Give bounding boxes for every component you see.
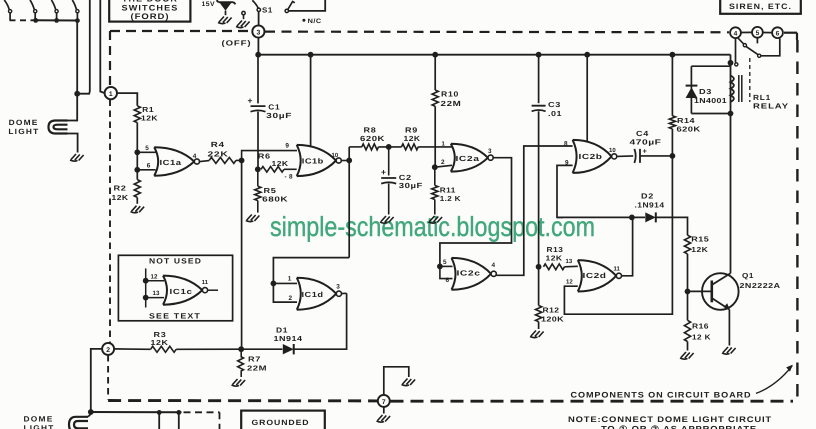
resistor R1 xyxy=(134,106,140,123)
label pin 6 IC1a xyxy=(147,163,151,170)
wire R4 junction to pin9 xyxy=(242,151,297,161)
wire IC2c pin5 stub xyxy=(440,265,453,267)
svg-text:2N2222A: 2N2222A xyxy=(740,281,781,290)
svg-text:2: 2 xyxy=(289,295,293,302)
svg-text:GROUNDED: GROUNDED xyxy=(252,418,310,427)
svg-text:12K: 12K xyxy=(272,159,289,168)
label D3 xyxy=(699,87,712,96)
junction dot door bus A xyxy=(33,18,38,23)
wire R9 to riser xyxy=(418,146,435,148)
switch S1 terminal xyxy=(257,8,260,11)
svg-text:R10: R10 xyxy=(441,90,459,99)
svg-text:12K: 12K xyxy=(404,134,421,143)
junction dot bottom rail xyxy=(88,409,94,415)
svg-text:12K: 12K xyxy=(141,113,158,122)
board border bottom-right segment xyxy=(391,400,794,403)
svg-text:C3: C3 xyxy=(548,100,561,109)
wire node7 hook xyxy=(384,367,409,395)
svg-text:+: + xyxy=(248,96,253,106)
svg-text:R2: R2 xyxy=(114,183,127,192)
label R10 xyxy=(441,90,459,99)
svg-text:5: 5 xyxy=(443,259,447,266)
label pin 5 IC2c xyxy=(443,259,447,266)
svg-text:8: 8 xyxy=(564,140,568,147)
wire R14 to C4 node xyxy=(671,129,673,156)
zener diode 15V xyxy=(217,0,236,15)
junction dot Q1 base xyxy=(685,289,691,295)
svg-text:R7: R7 xyxy=(248,355,261,364)
wire R1 to pin5 xyxy=(136,123,138,153)
wire IC1d pin feed xyxy=(273,258,349,303)
transistor Q1 base bar xyxy=(710,281,713,303)
junction dot R13/R12/C3 xyxy=(536,264,542,270)
label IC2c xyxy=(457,268,481,277)
label R6 value xyxy=(272,159,289,168)
svg-text:7: 7 xyxy=(382,399,386,406)
diode D2 1N914 xyxy=(645,212,656,222)
label S1 xyxy=(262,6,273,15)
svg-text:IC2b: IC2b xyxy=(579,152,603,161)
resistor R12 xyxy=(536,267,542,329)
svg-text:IC1a: IC1a xyxy=(160,158,183,167)
capacitor C3 xyxy=(532,106,546,112)
board border left edge upper xyxy=(109,31,111,87)
svg-text:R16: R16 xyxy=(692,321,709,330)
aux switch terminal xyxy=(285,9,288,12)
wire rail to C1 xyxy=(257,55,259,104)
wire R6 to IC1b pin8 xyxy=(284,168,297,170)
junction dot IC1c pin12 xyxy=(143,278,149,284)
junction dot relay top xyxy=(728,60,734,66)
wire pin5 stub xyxy=(137,151,155,153)
label C3 xyxy=(548,100,561,109)
svg-text:S1: S1 xyxy=(262,6,273,15)
ground below R7 xyxy=(232,379,246,386)
junction dot R7 xyxy=(238,346,244,352)
junction dot R8/C2 xyxy=(386,144,392,150)
resistor R4 xyxy=(209,157,236,163)
label IC1d xyxy=(302,290,324,299)
node 5 circle xyxy=(752,27,763,38)
label R3 xyxy=(154,330,167,339)
node 2 circle xyxy=(102,343,114,355)
label R13 value xyxy=(546,253,563,262)
wire door bus down to dome light xyxy=(76,21,78,122)
node 1 circle xyxy=(105,87,117,99)
box THE DOOR SWITCHES (FORD) xyxy=(109,0,190,22)
svg-text:4: 4 xyxy=(492,262,496,269)
label C4 value xyxy=(630,138,662,147)
box NOT USED xyxy=(118,255,232,320)
svg-text:D2: D2 xyxy=(641,192,654,201)
board border right edge xyxy=(796,40,798,399)
label pin 2 IC1d xyxy=(289,295,293,302)
ground below zener xyxy=(218,17,232,24)
wire rail to C3 xyxy=(538,55,540,103)
svg-text:12 K: 12 K xyxy=(692,332,711,341)
wire R4 to junction xyxy=(236,159,242,161)
label IC2a xyxy=(456,154,481,163)
svg-text:1.2 K: 1.2 K xyxy=(440,194,462,203)
svg-text:12K: 12K xyxy=(112,193,129,202)
svg-text:+: + xyxy=(381,167,386,177)
svg-text:1: 1 xyxy=(109,91,113,98)
junction dot switch stub A xyxy=(157,410,162,415)
label R12 xyxy=(543,306,560,315)
svg-text:.01: .01 xyxy=(548,109,562,118)
svg-text:R12: R12 xyxy=(543,306,560,315)
svg-text:5: 5 xyxy=(145,145,149,152)
label C4 xyxy=(636,129,649,138)
wire node2 to R3 xyxy=(114,348,151,350)
svg-text:SEE TEXT: SEE TEXT xyxy=(149,312,201,321)
resistor R6 xyxy=(261,167,284,173)
label 15V xyxy=(202,1,216,8)
label pin 1 IC2a xyxy=(442,140,446,147)
svg-text:R4: R4 xyxy=(211,140,225,149)
label R5 xyxy=(264,186,277,195)
ground below node7 xyxy=(377,415,391,422)
junction dot dome light branch xyxy=(74,91,80,97)
node 7 circle xyxy=(378,395,390,407)
label COMPONENTS ON CIRCUIT BOARD xyxy=(571,390,752,399)
junction dot IC1a pin5 xyxy=(134,149,140,155)
relay RL1 coil xyxy=(731,76,734,102)
dome light lamp (upper) xyxy=(49,121,68,134)
svg-text:R15: R15 xyxy=(691,235,709,244)
wire node4-node5 xyxy=(741,31,752,33)
wire pin6 stub xyxy=(137,169,155,171)
svg-text:6: 6 xyxy=(147,163,151,170)
wire rail to IC1b pin9 riser xyxy=(310,55,312,147)
op-amp gate IC1a xyxy=(154,147,199,175)
wire D3 branch bottom xyxy=(691,113,730,115)
wire rail to R10 xyxy=(434,55,436,90)
svg-text:680K: 680K xyxy=(262,195,289,204)
svg-text:(OFF): (OFF) xyxy=(222,39,252,48)
svg-text:3: 3 xyxy=(336,284,340,291)
label IC2b xyxy=(579,152,603,161)
label R10 value xyxy=(441,99,462,108)
relay core lines xyxy=(739,75,742,102)
label R11 xyxy=(440,185,456,194)
wire bottom lamp lead xyxy=(88,414,91,417)
ground below R5 xyxy=(246,215,260,222)
label pin 3 IC2a xyxy=(488,148,492,155)
label IC1a xyxy=(160,158,183,167)
svg-text:13: 13 xyxy=(566,258,573,265)
diode D3 1N4001 xyxy=(686,86,698,98)
wire R3 to R7 junction xyxy=(176,348,241,350)
junction dot C4/R14 xyxy=(670,153,676,159)
junction dot IC1a pin6 xyxy=(134,167,140,173)
label pin 13 IC1c xyxy=(153,290,160,297)
label R12 value xyxy=(541,314,565,323)
op-amp gate IC1b xyxy=(297,145,342,176)
label pin 4 IC1a xyxy=(193,153,197,160)
svg-text:30µF: 30µF xyxy=(266,111,292,120)
junction dot rail/IC1b xyxy=(308,52,314,58)
label pin 12 IC1c xyxy=(151,273,158,280)
relay contact pivot xyxy=(737,37,746,47)
svg-text:6: 6 xyxy=(446,277,450,284)
wire lamp top lead xyxy=(68,120,78,122)
wire rail to IC2b top xyxy=(586,55,588,142)
junction dot IC2c pin5 xyxy=(437,264,443,270)
svg-text:- 8: - 8 xyxy=(285,174,294,181)
label D1 xyxy=(276,325,288,334)
junction dot IC2a pin2 xyxy=(432,164,438,170)
watermark simple-schematic.blogspot.com xyxy=(270,211,595,242)
svg-text:1: 1 xyxy=(288,276,292,283)
label R14 xyxy=(677,116,695,125)
ground below C2 xyxy=(380,216,394,223)
label R2 value xyxy=(112,193,129,202)
wire third feed down to node 1 xyxy=(100,0,105,93)
wire IC1c pin12 stub xyxy=(146,280,164,282)
label pin 3 IC1d xyxy=(336,284,340,291)
label pin 6 IC2c xyxy=(446,277,450,284)
label D1 value xyxy=(274,334,303,343)
svg-text:2: 2 xyxy=(106,347,110,354)
junction dot switch stub B xyxy=(176,410,181,415)
label pin 8 IC1b xyxy=(285,174,294,181)
label R3 value xyxy=(151,338,169,347)
node 4 circle xyxy=(730,27,741,38)
wire C2 to ground xyxy=(388,184,390,215)
wire Q1 emitter down xyxy=(728,310,730,346)
wire C1 to R6 junction xyxy=(257,112,259,170)
wire rail to relay xyxy=(730,55,732,114)
label R8 value xyxy=(360,134,385,143)
resistor R8 xyxy=(362,144,379,150)
junction dot rail/R10 xyxy=(432,52,438,58)
wire rail to R14 xyxy=(671,55,673,116)
door switch bus wire xyxy=(33,19,77,21)
svg-text:620K: 620K xyxy=(677,124,702,133)
label D2 value xyxy=(635,200,666,209)
wire C4 to R14 node xyxy=(640,155,672,157)
wire IC2d out riser xyxy=(622,217,633,275)
junction dot IC1d pin1 xyxy=(271,281,277,287)
junction dot rail/R14 xyxy=(670,52,676,58)
wire IC1c tied inputs xyxy=(145,268,147,307)
svg-text:RELAY: RELAY xyxy=(753,102,789,111)
svg-text:3: 3 xyxy=(488,148,492,155)
wire node7 below xyxy=(383,407,385,414)
main rail wire xyxy=(257,54,731,56)
svg-text:simple-schematic.blogspot.com: simple-schematic.blogspot.com xyxy=(270,211,595,242)
label C2 value xyxy=(399,181,423,190)
svg-text:22K: 22K xyxy=(208,150,229,159)
wire IC2b pin9 xyxy=(557,165,573,217)
wire S1 to node 3 xyxy=(258,12,260,26)
resistor R2 xyxy=(134,170,140,204)
switch S1 blade xyxy=(252,0,258,8)
junction dot IC1c pin13 xyxy=(143,295,149,301)
wire second feed down xyxy=(79,0,90,94)
label R15 xyxy=(691,235,709,244)
junction dot relay bottom xyxy=(728,111,734,117)
ground below R12 xyxy=(530,331,544,338)
label D3 value xyxy=(694,96,727,105)
wire IC1b out xyxy=(341,160,349,162)
wire IC2a out xyxy=(440,158,512,265)
wire node4 stub down xyxy=(735,38,738,66)
label DOME LIGHT (bottom) xyxy=(24,415,55,429)
label N/C contact xyxy=(302,18,321,25)
svg-text:NOTE:CONNECT DOME LIGHT CIRCUI: NOTE:CONNECT DOME LIGHT CIRCUIT xyxy=(568,415,772,424)
svg-text:12K: 12K xyxy=(151,338,169,347)
wire D2 row xyxy=(557,216,645,218)
svg-text:4: 4 xyxy=(193,153,197,160)
ground below R16 xyxy=(680,352,694,359)
label R1 value xyxy=(141,113,158,122)
svg-text:IC2c: IC2c xyxy=(457,268,481,277)
label R14 value xyxy=(677,124,702,133)
capacitor C1 xyxy=(251,106,266,112)
label Q1 type xyxy=(740,281,781,290)
svg-text:IC2d: IC2d xyxy=(583,271,607,280)
label R16 xyxy=(692,321,709,330)
op-amp gate IC2a xyxy=(451,144,493,172)
transistor Q1 circle xyxy=(702,273,739,310)
label C2 xyxy=(399,173,412,182)
resistor R10 xyxy=(432,90,438,106)
wire switch stub A xyxy=(158,412,160,429)
label Q1 xyxy=(742,271,754,280)
svg-text:D3: D3 xyxy=(699,87,712,96)
svg-text:DOME: DOME xyxy=(24,415,54,424)
label R9 value xyxy=(404,134,421,143)
wire IC2d pin12 feedback xyxy=(564,156,672,314)
wire relay NC to node 6 xyxy=(761,38,780,56)
capacitor C4 xyxy=(634,149,640,163)
label pin 2 IC2a xyxy=(441,159,445,166)
relay dashed link xyxy=(749,58,751,102)
svg-text:120K: 120K xyxy=(541,314,565,323)
wire D2 cathode to R15 xyxy=(656,217,688,235)
svg-text:30µF: 30µF xyxy=(399,181,423,190)
svg-text:TO ① OR ② AS APPROPRIATE: TO ① OR ② AS APPROPRIATE xyxy=(601,425,757,429)
label NOTE line 2 xyxy=(601,425,757,429)
wire IC1b out riser xyxy=(348,147,350,258)
wire Q1 base wire xyxy=(688,290,712,292)
svg-text:11: 11 xyxy=(614,266,621,273)
wire D3 branch top xyxy=(691,65,730,67)
label C4 plus xyxy=(643,146,648,155)
svg-text:6: 6 xyxy=(776,31,780,38)
label R7 xyxy=(248,355,261,364)
label R2 xyxy=(114,183,127,192)
svg-text:1N4001: 1N4001 xyxy=(694,96,727,105)
ground below S1 terminal xyxy=(236,21,250,28)
svg-text:RL1: RL1 xyxy=(753,93,771,102)
wire R8-R9 xyxy=(379,146,402,148)
svg-text:SIREN, ETC.: SIREN, ETC. xyxy=(729,2,792,11)
label pin 13 IC2d xyxy=(566,258,573,265)
ground below Q1 emitter xyxy=(722,347,736,354)
door switch wire (dashed feed) xyxy=(10,19,34,21)
svg-text:Q1: Q1 xyxy=(742,271,754,280)
ground below R11 xyxy=(429,216,443,223)
label R11 value xyxy=(440,194,462,203)
label R1 xyxy=(142,105,154,114)
svg-text:13: 13 xyxy=(153,290,160,297)
capacitor C2 xyxy=(381,178,396,184)
junction dot rail/C1 xyxy=(255,52,261,58)
label pin 10 IC1b xyxy=(332,152,339,159)
op-amp gate IC2d xyxy=(578,260,622,291)
svg-text:LIGHT: LIGHT xyxy=(24,423,55,429)
svg-text:3: 3 xyxy=(257,30,261,37)
svg-text:R6: R6 xyxy=(258,151,271,160)
label R15 value xyxy=(691,245,708,254)
wire C3 down to R13 node xyxy=(538,111,540,267)
svg-text:10: 10 xyxy=(332,152,339,159)
label RL1 xyxy=(753,93,771,102)
svg-text:9: 9 xyxy=(285,143,289,150)
label IC1c xyxy=(170,287,193,296)
svg-text:IC1b: IC1b xyxy=(302,157,324,166)
label pin 10 IC2b xyxy=(609,147,616,154)
dome light lamp (bottom) xyxy=(69,417,88,429)
wire R10 down to pin1 row xyxy=(434,106,436,167)
label R13 xyxy=(547,245,564,254)
wire pin1 stub xyxy=(435,146,452,148)
wire IC1a out to R4 xyxy=(200,161,210,162)
label R4 xyxy=(211,140,225,149)
junction dot rail/C3 xyxy=(536,52,542,58)
wire D1 to IC1d riser xyxy=(294,293,347,349)
svg-text:5: 5 xyxy=(756,30,760,37)
wire IC2b out to C4 xyxy=(617,155,633,158)
wire aux switch to top box xyxy=(289,0,326,11)
svg-text:C1: C1 xyxy=(268,103,280,112)
label R6 xyxy=(258,151,271,160)
board border left edge mid xyxy=(109,100,111,344)
resistor R7 xyxy=(238,349,244,377)
wire node5 stub xyxy=(756,38,758,44)
label D2 xyxy=(641,192,654,201)
svg-text:12: 12 xyxy=(566,279,573,286)
label pin 9 IC2b xyxy=(565,160,569,167)
ground on node7 hook xyxy=(402,379,416,386)
wire D3 branch left xyxy=(690,66,692,113)
junction dot rail/IC2b xyxy=(584,52,590,58)
svg-text:12: 12 xyxy=(151,273,158,280)
label DOME LIGHT (upper) xyxy=(8,118,39,136)
wire lamp bottom lead xyxy=(68,134,78,153)
wire bottom rail dashed xyxy=(184,411,220,413)
wire IC1c out stub xyxy=(208,289,218,291)
svg-text:470µF: 470µF xyxy=(630,138,662,147)
svg-text:N/C: N/C xyxy=(308,18,322,25)
wire R8 row xyxy=(349,146,362,148)
label IC2d xyxy=(583,271,607,280)
label pin 11 IC2d xyxy=(614,266,621,273)
svg-text:+: + xyxy=(643,146,648,155)
label R4 value xyxy=(208,150,229,159)
wire pin2 stub xyxy=(435,165,452,167)
svg-text:22M: 22M xyxy=(441,99,462,108)
label C3 value xyxy=(548,109,562,118)
svg-text:1N914: 1N914 xyxy=(274,334,303,343)
wire bottom dashed drop xyxy=(219,412,221,429)
wire C2 stem xyxy=(388,147,390,176)
svg-text:10: 10 xyxy=(609,147,616,154)
svg-text:LIGHT: LIGHT xyxy=(8,127,39,136)
